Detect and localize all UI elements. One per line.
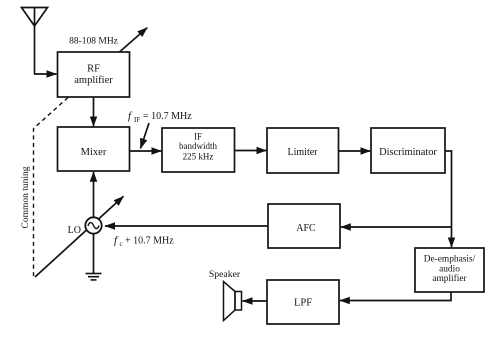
- Discriminator box: [371, 128, 445, 173]
- pointer arrow from fIF label to wire: [141, 123, 150, 149]
- svg-text:De-emphasis/: De-emphasis/: [424, 255, 476, 265]
- wire IF bandwidth to Limiter: [235, 150, 267, 152]
- common tuning dashed link: [34, 98, 69, 277]
- svg-text:c: c: [120, 240, 123, 248]
- wire Limiter to Discriminator: [339, 150, 371, 152]
- svg-text:Mixer: Mixer: [81, 147, 107, 158]
- wire AFC to LO: [105, 225, 268, 227]
- RF amplifier box U1: [58, 52, 130, 97]
- wire LO to ground: [93, 234, 95, 273]
- svg-text:LO: LO: [68, 225, 81, 236]
- wire LO to Mixer: [93, 172, 95, 217]
- Limiter box: [267, 128, 339, 173]
- svg-text:LPF: LPF: [294, 298, 312, 309]
- svg-text:88-108 MHz: 88-108 MHz: [69, 37, 118, 47]
- wire De-emphasis to LPF: [340, 292, 451, 301]
- svg-text:audio: audio: [439, 264, 460, 274]
- wire LPF to speaker: [243, 300, 268, 302]
- local oscillator LO: [85, 217, 101, 233]
- svg-text:Discriminator: Discriminator: [379, 147, 437, 158]
- svg-text:IF: IF: [134, 116, 140, 124]
- svg-text:225 kHz: 225 kHz: [183, 151, 214, 161]
- wire junction to AFC: [341, 226, 452, 228]
- antenna: [22, 8, 48, 75]
- svg-text:Limiter: Limiter: [288, 147, 319, 158]
- wire Discriminator to De-emphasis (down): [445, 151, 452, 247]
- svg-text:amplifier: amplifier: [432, 273, 467, 284]
- label fc + 10.7 MHz: [114, 234, 174, 248]
- speaker: [224, 282, 242, 321]
- IF bandwidth box: [162, 128, 235, 172]
- svg-text:bandwidth: bandwidth: [179, 141, 217, 151]
- wire Mixer to IF bandwidth: [130, 150, 162, 152]
- svg-text:= 10.7 MHz: = 10.7 MHz: [143, 111, 192, 122]
- RF amplifier tuning arrow: [120, 28, 148, 52]
- ground: [86, 274, 102, 280]
- svg-text:Common tuning: Common tuning: [21, 166, 31, 228]
- Mixer box: [58, 127, 130, 171]
- LO tuning arrow (diagonal): [35, 196, 124, 277]
- svg-text:AFC: AFC: [296, 223, 316, 234]
- svg-text:Speaker: Speaker: [209, 269, 241, 280]
- De-emphasis / audio amplifier box: [415, 248, 484, 292]
- LPF box: [267, 280, 339, 324]
- wire RF amplifier to Mixer: [93, 97, 95, 126]
- svg-text:+ 10.7 MHz: + 10.7 MHz: [125, 235, 174, 246]
- svg-text:RF: RF: [87, 64, 100, 75]
- svg-text:amplifier: amplifier: [74, 75, 113, 86]
- wire antenna to RF amplifier: [34, 73, 57, 75]
- AFC box: [268, 204, 340, 248]
- label fIF = 10.7 MHz: [128, 110, 192, 124]
